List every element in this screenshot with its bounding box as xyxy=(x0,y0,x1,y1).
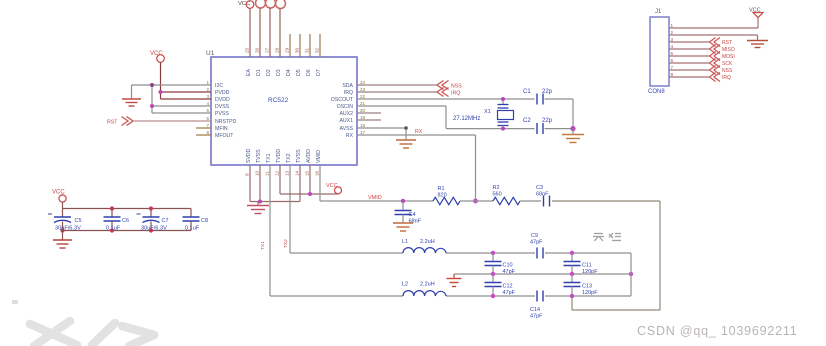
junction (AVDD) xyxy=(308,192,312,196)
svg-text:D3: D3 xyxy=(276,69,282,76)
svg-text:C4: C4 xyxy=(409,212,416,218)
svg-text:U1: U1 xyxy=(206,50,215,57)
capacitor C8 0.1uF xyxy=(183,209,209,232)
junction (VCC/PVDD) xyxy=(159,90,163,94)
wire pin14 TVSS xyxy=(299,165,301,202)
pin19 AUX1 stub xyxy=(357,119,381,121)
junction (I2C net) xyxy=(150,83,154,87)
svg-text:7: 7 xyxy=(206,123,209,128)
resistor R2 560 xyxy=(493,185,521,205)
wire pin16 VMID xyxy=(320,165,433,201)
pin32 D7 stub xyxy=(319,34,321,57)
wire pin23 IRQ xyxy=(357,91,437,93)
wire pin26 D1 xyxy=(259,8,261,57)
wire pin24 SDA xyxy=(357,84,437,86)
svg-text:26: 26 xyxy=(255,47,260,53)
capacitor C10 47pF xyxy=(485,253,516,275)
svg-text:OSCIN: OSCIN xyxy=(337,104,354,110)
svg-text:AVSS: AVSS xyxy=(340,126,354,132)
svg-text:EA: EA xyxy=(246,69,252,76)
svg-text:47pF: 47pF xyxy=(530,240,543,246)
inductor L2 2.2uH xyxy=(402,282,446,297)
port MISO (J1) xyxy=(710,45,735,54)
svg-text:8: 8 xyxy=(206,130,209,135)
svg-text:3: 3 xyxy=(206,94,209,99)
junction (C9/C11) xyxy=(570,251,574,255)
svg-text:NRSTPD: NRSTPD xyxy=(215,119,237,125)
svg-text:TX2: TX2 xyxy=(283,239,289,248)
capacitor C1 22p xyxy=(523,89,553,105)
capacitor C7 30uF/6.3V xyxy=(137,209,169,232)
svg-text:C13: C13 xyxy=(582,284,592,290)
junction (L1/C10) xyxy=(491,251,495,255)
wire TX1 bottom rail xyxy=(270,253,631,296)
wire pin12 TVDD / pin15 AVDD to VCC xyxy=(280,165,338,194)
wire middle rail xyxy=(454,273,631,275)
svg-text:MFOUT: MFOUT xyxy=(215,133,234,139)
power VCC (J1) xyxy=(749,8,763,18)
svg-text:MOSI: MOSI xyxy=(722,54,735,60)
capacitor C9 47pF (series top) xyxy=(530,233,543,259)
capacitor C11 120pF xyxy=(564,253,599,275)
NC circle pin28 xyxy=(276,0,286,9)
svg-text:TX1: TX1 xyxy=(260,241,266,250)
svg-text:TVSS: TVSS xyxy=(296,149,302,163)
wire DVSS/PVSS branch xyxy=(152,85,211,113)
net label RX xyxy=(415,129,423,135)
svg-text:32: 32 xyxy=(315,47,320,53)
ground earth (middle rail) xyxy=(447,274,462,287)
svg-text:30uF/6.3V: 30uF/6.3V xyxy=(141,226,167,232)
port NSS (J1) xyxy=(710,66,733,75)
wire J1 pin1 to VCC xyxy=(669,18,758,29)
U1 right pin numbers 17-24 xyxy=(360,80,366,135)
capacitor C14 47pF (series bottom) xyxy=(530,291,543,320)
pin MFIN stub xyxy=(196,127,211,129)
svg-text:560: 560 xyxy=(493,192,502,198)
connector J1 CON8 xyxy=(648,9,669,95)
wire pin17 RX xyxy=(357,135,476,201)
svg-text:AVDD: AVDD xyxy=(306,149,312,163)
ground (crystal) xyxy=(562,129,584,143)
svg-text:C1: C1 xyxy=(523,89,531,95)
wire J1 pin8 xyxy=(669,76,710,78)
svg-text:TVDD: TVDD xyxy=(276,149,282,163)
svg-text:MISO: MISO xyxy=(722,47,735,53)
svg-text:25: 25 xyxy=(245,47,250,53)
watermark dash xyxy=(12,300,18,304)
capacitor C4 68nF xyxy=(395,201,422,225)
svg-text:RX: RX xyxy=(415,129,423,135)
wire pin9 SVDD xyxy=(249,165,251,202)
svg-text:VCC: VCC xyxy=(150,51,163,57)
svg-text:2: 2 xyxy=(206,87,209,92)
junction (mid rail right) xyxy=(629,272,633,276)
svg-text:NSS: NSS xyxy=(451,83,462,89)
svg-text:AUX1: AUX1 xyxy=(339,118,353,124)
svg-text:C6: C6 xyxy=(122,218,129,224)
svg-text:2.2uH: 2.2uH xyxy=(420,239,435,245)
svg-text:SDA: SDA xyxy=(342,83,353,89)
svg-text:VMID: VMID xyxy=(316,150,322,163)
svg-text:D5: D5 xyxy=(296,69,302,76)
wire C3 to antenna loop xyxy=(552,201,660,310)
svg-text:29: 29 xyxy=(285,47,290,53)
svg-text:0.1uF: 0.1uF xyxy=(106,226,121,232)
wire J1 pin2 to ground xyxy=(669,35,758,41)
U1 bottom pin numbers 9-16 xyxy=(245,170,320,176)
NC circle pin27 xyxy=(266,0,276,8)
junction (C7 bottom) xyxy=(149,228,153,232)
svg-text:AUX2: AUX2 xyxy=(339,111,353,117)
svg-text:OSCOUT: OSCOUT xyxy=(331,97,354,103)
wire pin27 D2 xyxy=(269,8,271,57)
port NSS (at U1) xyxy=(437,81,462,90)
svg-text:12: 12 xyxy=(275,170,280,176)
U1 left pin numbers 1-8 xyxy=(206,80,209,135)
port RST (left) xyxy=(107,117,133,126)
svg-text:C10: C10 xyxy=(503,263,513,269)
svg-text:13: 13 xyxy=(285,170,290,176)
J1 pin numbers xyxy=(671,23,674,77)
watermark strokes bottom-left xyxy=(30,321,154,346)
wire J1 pin5 xyxy=(669,55,710,57)
svg-text:D1: D1 xyxy=(256,69,262,76)
power VCC (AVDD) xyxy=(326,183,342,194)
wire pin13 TX2 vertical xyxy=(289,165,291,253)
svg-text:28: 28 xyxy=(275,47,280,53)
svg-text:C2: C2 xyxy=(523,118,531,124)
power VCC (decoupling) xyxy=(52,190,66,209)
wire ground rail (SVDD/TVSS) xyxy=(250,201,300,203)
ground (TVSS) xyxy=(247,202,269,214)
junction (L2/C12) xyxy=(491,294,495,298)
ground (AVSS) xyxy=(396,140,416,148)
wire pin25 EA to VCC xyxy=(249,8,251,57)
svg-text:14: 14 xyxy=(295,170,300,176)
net label TX2 xyxy=(283,239,289,248)
junction (C10/C12 mid) xyxy=(491,272,495,276)
wire J1 pin6 xyxy=(669,62,710,64)
svg-text:SCK: SCK xyxy=(722,61,733,67)
junction (C6 bottom) xyxy=(110,228,114,232)
svg-text:22p: 22p xyxy=(542,118,553,124)
junction (X1 top) xyxy=(501,97,505,101)
junction (RX/R1/R2) xyxy=(473,199,478,204)
watermark text CSDN xyxy=(637,324,798,338)
svg-text:17: 17 xyxy=(360,130,366,135)
svg-text:CON8: CON8 xyxy=(648,89,665,95)
svg-text:120pF: 120pF xyxy=(582,290,598,296)
svg-text:J1: J1 xyxy=(655,9,662,15)
svg-text:20: 20 xyxy=(360,108,366,113)
svg-text:31: 31 xyxy=(305,47,310,53)
svg-text:820: 820 xyxy=(438,193,447,199)
svg-text:C12: C12 xyxy=(503,284,513,290)
wire R2 to C3 xyxy=(520,200,541,202)
wire pin3 DVDD xyxy=(161,98,212,100)
port SCK (J1) xyxy=(710,59,733,68)
wire pin18 AVSS xyxy=(357,128,406,140)
power VCC (left of U1) xyxy=(150,51,164,92)
capacitor C5 30uF/6.3V xyxy=(48,209,82,232)
wire decoupling bottom rail xyxy=(63,230,192,232)
svg-text:2: 2 xyxy=(671,30,674,35)
svg-text:27: 27 xyxy=(265,47,270,53)
svg-text:15: 15 xyxy=(305,170,310,176)
svg-text:C7: C7 xyxy=(162,218,169,224)
svg-text:C3: C3 xyxy=(536,185,543,191)
svg-text:L1: L1 xyxy=(402,239,408,245)
svg-text:5: 5 xyxy=(671,51,674,56)
svg-text:30uF/6.3V: 30uF/6.3V xyxy=(55,226,81,232)
svg-text:22: 22 xyxy=(360,94,366,99)
NC circle pin26 xyxy=(256,0,266,8)
junction (C11/C13 mid) xyxy=(570,272,574,276)
wire pin28 D3 xyxy=(279,9,281,58)
wire decoupling top rail xyxy=(63,208,192,210)
port RST (J1) xyxy=(710,38,733,47)
port IRQ (at U1) xyxy=(437,88,460,97)
capacitor C13 120pF xyxy=(564,274,599,296)
svg-text:3: 3 xyxy=(671,37,674,42)
svg-text:16: 16 xyxy=(315,170,320,176)
net label VMID xyxy=(368,195,382,201)
svg-text:22p: 22p xyxy=(542,89,553,95)
svg-text:RC522: RC522 xyxy=(268,97,289,104)
junction (VMID/C4) xyxy=(401,199,405,203)
svg-text:18: 18 xyxy=(360,123,366,128)
svg-text:6: 6 xyxy=(671,58,674,63)
wire pin2 PVDD to VCC xyxy=(161,92,212,99)
wire J1 pin4 xyxy=(669,48,710,50)
svg-text:68nF: 68nF xyxy=(536,192,549,198)
svg-text:TX1: TX1 xyxy=(266,153,272,163)
svg-text:C9: C9 xyxy=(531,233,538,239)
wire TX2 top rail xyxy=(290,252,631,254)
ground (I2C) xyxy=(122,99,141,106)
IC U1 RC522 body xyxy=(206,50,357,165)
svg-text:24: 24 xyxy=(360,80,366,85)
svg-text:PVDD: PVDD xyxy=(215,90,230,96)
junction (X1 bottom) xyxy=(501,127,505,131)
port IRQ (J1) xyxy=(710,73,732,82)
svg-text:L2: L2 xyxy=(402,282,408,288)
svg-text:MFIN: MFIN xyxy=(215,126,228,132)
svg-text:19: 19 xyxy=(360,115,366,120)
svg-text:NSS: NSS xyxy=(722,68,733,74)
junction (AVSS) xyxy=(404,126,408,130)
ground (J1) xyxy=(747,41,768,48)
svg-text:RST: RST xyxy=(722,40,732,46)
svg-text:C8: C8 xyxy=(201,218,208,224)
svg-text:C5: C5 xyxy=(75,218,82,224)
junction (C14/C13/loop) xyxy=(570,294,574,298)
svg-text:4: 4 xyxy=(671,44,674,49)
svg-text:C11: C11 xyxy=(582,263,592,269)
svg-text:D2: D2 xyxy=(266,69,272,76)
svg-text:SVDD: SVDD xyxy=(246,148,252,163)
svg-text:IRQ: IRQ xyxy=(344,90,353,96)
capacitor C12 47pF xyxy=(485,274,516,296)
svg-text:27.12MHz: 27.12MHz xyxy=(453,116,480,122)
svg-text:C14: C14 xyxy=(530,307,540,313)
crystal X1 27.12MHz xyxy=(453,99,514,129)
junction (C7 top) xyxy=(149,206,153,210)
pin MFOUT stub xyxy=(196,134,211,136)
svg-text:VCC: VCC xyxy=(238,1,250,7)
wire R1 to junction xyxy=(460,200,493,202)
svg-text:8: 8 xyxy=(671,72,674,77)
svg-text:5: 5 xyxy=(206,108,209,113)
wire J1 pin3 xyxy=(669,41,710,43)
capacitor C6 0.1uF xyxy=(104,209,130,232)
wire pin10 TVSS xyxy=(259,165,261,202)
svg-text:6: 6 xyxy=(206,116,209,121)
svg-text:1: 1 xyxy=(206,80,209,85)
svg-text:47pF: 47pF xyxy=(503,290,516,296)
ground (decoupling) xyxy=(53,231,72,249)
wire pin21 OSCIN xyxy=(357,106,573,129)
pin29 D4 stub xyxy=(289,34,291,57)
svg-text:DVDD: DVDD xyxy=(215,97,230,103)
port MOSI (J1) xyxy=(710,52,735,61)
wire pin22 OSCOUT xyxy=(357,99,573,129)
wire NRSTPD xyxy=(133,120,211,122)
wire pin1 I2C to ground xyxy=(132,85,212,99)
capacitor C2 22p xyxy=(523,118,553,134)
svg-text:TX2: TX2 xyxy=(286,153,292,163)
svg-text:TVSS: TVSS xyxy=(256,149,262,163)
wire J1 pin7 xyxy=(669,69,710,71)
svg-text:1: 1 xyxy=(671,23,674,28)
U1 right pin names xyxy=(331,83,354,139)
svg-text:0.1uF: 0.1uF xyxy=(185,226,200,232)
U1 bottom pin names xyxy=(246,148,322,163)
svg-text:D4: D4 xyxy=(286,69,292,76)
svg-text:9: 9 xyxy=(245,173,250,176)
inductor L1 2.2uH xyxy=(402,239,446,253)
svg-text:2.2uH: 2.2uH xyxy=(420,282,435,288)
U1 top pin numbers 25-32 xyxy=(245,47,320,53)
svg-text:X1: X1 xyxy=(484,109,491,115)
svg-text:21: 21 xyxy=(360,101,366,106)
svg-text:IRQ: IRQ xyxy=(722,75,731,81)
U1 top pin names xyxy=(246,69,322,76)
svg-text:10: 10 xyxy=(255,170,260,176)
pin20 AUX2 stub xyxy=(357,112,381,114)
resistor R1 820 xyxy=(433,186,460,205)
svg-text:RST: RST xyxy=(107,119,118,125)
svg-text:23: 23 xyxy=(360,87,366,92)
svg-text:47pF: 47pF xyxy=(530,314,543,320)
capacitor C3 68nF xyxy=(536,185,550,207)
junction (C6 top) xyxy=(110,206,114,210)
ground (C4) xyxy=(393,223,413,231)
svg-text:VMID: VMID xyxy=(368,195,382,201)
power VCC (top of U1, pin EA) xyxy=(238,1,254,9)
U1 left pin names xyxy=(215,83,237,139)
svg-text:D6: D6 xyxy=(306,69,312,76)
junction (C5 bottom) xyxy=(60,228,64,232)
pin31 D6 stub xyxy=(309,34,311,57)
label antenna (tian xian) xyxy=(593,233,621,241)
svg-text:11: 11 xyxy=(265,171,270,176)
svg-text:DVSS: DVSS xyxy=(215,104,230,110)
svg-text:RX: RX xyxy=(346,133,354,139)
svg-text:D7: D7 xyxy=(316,69,322,76)
net label TX1 xyxy=(260,241,266,250)
svg-text:R2: R2 xyxy=(493,185,500,191)
junction (DVSS) xyxy=(150,104,154,108)
svg-text:IRQ: IRQ xyxy=(451,90,460,96)
pin30 D5 stub xyxy=(299,34,301,57)
svg-text:PVSS: PVSS xyxy=(215,111,229,117)
svg-text:30: 30 xyxy=(295,47,300,53)
junction (TVSS gnd) xyxy=(258,200,262,204)
svg-text:4: 4 xyxy=(206,101,209,106)
svg-text:7: 7 xyxy=(671,65,674,70)
junction (C1/C2 to ground) xyxy=(570,126,575,131)
wire pin11 TX1 vertical xyxy=(269,165,271,296)
svg-text:R1: R1 xyxy=(438,186,445,192)
svg-text:CSDN @qq_ 1039692211: CSDN @qq_ 1039692211 xyxy=(637,324,798,338)
svg-text:I2C: I2C xyxy=(215,83,223,89)
